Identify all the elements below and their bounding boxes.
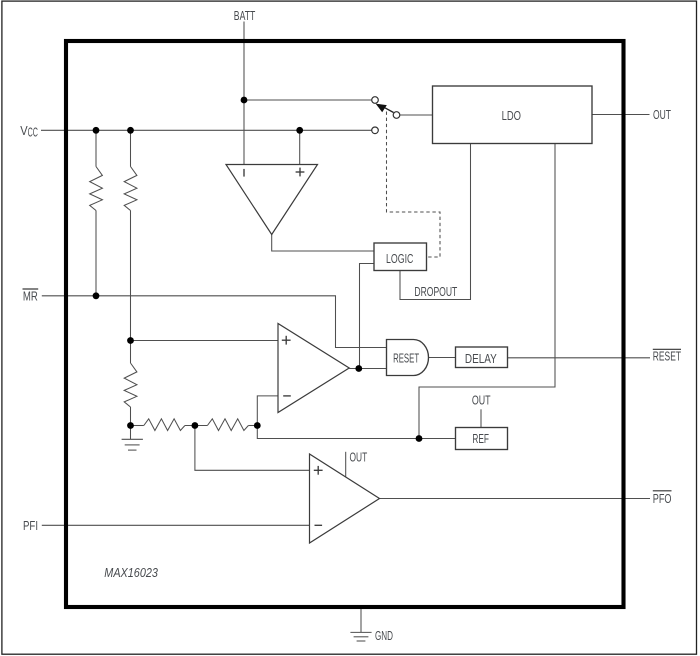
wire OUT tap to REF (480, 409, 482, 427)
wire BATT vertical into comparator (243, 22, 245, 165)
LDO box (433, 86, 593, 144)
resistor R1 (90, 167, 103, 211)
wire LOGIC dropout pin to LDO (400, 144, 471, 300)
node D junction LDO/REF wire (416, 435, 423, 442)
svg-text:RESET: RESET (653, 349, 681, 364)
svg-text:GND: GND (375, 628, 393, 643)
wire node A to RESET comparator plus input (131, 340, 279, 342)
svg-text:OUT: OUT (653, 107, 671, 122)
svg-text:MR: MR (23, 289, 38, 304)
switch pole contact (393, 112, 400, 119)
REF box (456, 428, 508, 450)
svg-text:RESET: RESET (393, 350, 419, 365)
wire PFI input (42, 524, 310, 526)
wire LDO pin2 down to node D (419, 144, 555, 439)
node A junction R2/R3 (127, 337, 134, 344)
wire OUT tap at PFI comparator (345, 452, 347, 477)
resistor R3 (124, 363, 137, 407)
wire GND stub (360, 609, 362, 632)
junction MR/R1 (93, 292, 100, 299)
ground symbol GND pin (350, 632, 371, 641)
resistor RB (207, 419, 248, 431)
wire RA to node B (185, 425, 208, 427)
resistor R2 (124, 167, 137, 211)
LOGIC box (374, 243, 427, 271)
label RESET pin with overbar (653, 349, 681, 364)
wire node C feedback to RESET comparator minus input (257, 396, 278, 426)
minus label comparator U2 (283, 395, 291, 397)
svg-text:DELAY: DELAY (465, 351, 497, 366)
junction VCC/R1 (93, 127, 100, 134)
chip boundary (66, 41, 624, 607)
label VCC (20, 123, 38, 139)
switch top contact (372, 97, 379, 104)
wire VCC to comparator plus input (299, 130, 301, 164)
wire ground node to resistor RA lead (131, 425, 144, 427)
switch bottom contact (372, 127, 379, 134)
ground symbol at resistor divider (122, 439, 143, 450)
wire VCC horizontal (41, 129, 372, 131)
wire resistor R2 top lead (130, 130, 132, 166)
op-amp U2 reset comparator (278, 324, 349, 413)
node B junction RA/RB (192, 422, 199, 429)
plus label comparator U1 (296, 168, 305, 177)
svg-text:PFI: PFI (23, 518, 38, 533)
junction reset comparator output (355, 365, 362, 372)
dashed control line from switch to LOGIC (387, 112, 441, 258)
svg-text:LOGIC: LOGIC (386, 251, 413, 266)
svg-text:CC: CC (28, 125, 38, 140)
svg-text:DROPOUT: DROPOUT (414, 284, 457, 299)
wire MR horizontal (42, 296, 387, 348)
svg-text:OUT: OUT (472, 393, 491, 408)
wire resistor R3 bottom lead to ground node (130, 407, 132, 439)
wire resistor R1 top lead (95, 130, 97, 166)
wire node B down to PFI comparator plus input (195, 426, 310, 471)
minus label comparator U1 (243, 169, 245, 177)
wire switch pole to LDO (400, 114, 433, 116)
junction VCC/comparator (296, 127, 303, 134)
junction BATT/switch (241, 97, 248, 104)
junction R3/ground/RA (127, 422, 134, 429)
RESET gate (387, 340, 429, 376)
wire RESET comparator output to gate (349, 368, 386, 370)
resistor RA (144, 419, 185, 431)
label MR with overbar (23, 289, 39, 304)
wire gate output to DELAY (429, 357, 456, 359)
wire node C to REF (257, 426, 455, 439)
plus label comparator U3 (314, 466, 323, 475)
node C junction RB/feedback (254, 422, 261, 429)
wire resistor R1 bottom lead to MR line (95, 211, 97, 296)
wire LOGIC to reset node (360, 264, 375, 369)
wire resistor R3 top lead (130, 341, 132, 364)
wire PFI comparator output to PFO pin (380, 498, 651, 500)
plus label comparator U2 (282, 336, 291, 345)
wire resistor R2 bottom lead to node A (130, 211, 132, 341)
wire comparator U1 output to LOGIC (272, 235, 374, 252)
svg-text:REF: REF (472, 431, 489, 446)
wire RB to node C (248, 425, 257, 427)
op-amp U3 power-fail comparator (310, 454, 380, 543)
svg-text:PFO: PFO (653, 491, 672, 506)
junction VCC/R2 (127, 127, 134, 134)
op-amp U1 battery comparator (226, 165, 318, 235)
svg-text:BATT: BATT (234, 8, 256, 23)
wire DELAY to RESET output pin (508, 357, 651, 359)
minus label comparator U3 (315, 524, 323, 526)
DELAY box (456, 347, 508, 368)
svg-text:LDO: LDO (502, 108, 521, 123)
label PFO pin with overbar (653, 491, 672, 506)
wire LDO to OUT pin (592, 114, 650, 116)
wire BATT node to switch top contact (244, 99, 372, 101)
svg-text:OUT: OUT (350, 450, 368, 465)
switch arm with arrowhead (376, 104, 394, 113)
svg-text:MAX16023: MAX16023 (104, 565, 158, 580)
